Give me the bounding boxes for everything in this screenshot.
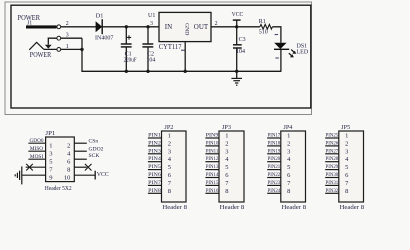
JP4 pin wires [267, 138, 281, 193]
svg-text:3: 3 [345, 148, 348, 155]
JP3 pin numbers [225, 133, 229, 195]
svg-text:CSn: CSn [89, 139, 99, 145]
svg-text:5: 5 [225, 164, 228, 171]
svg-text:PIN25: PIN25 [326, 133, 339, 139]
svg-text:1: 1 [66, 44, 69, 50]
svg-text:PIN13: PIN13 [206, 164, 219, 170]
U1 GND lead wire [184, 42, 186, 72]
junction C3 bottom [235, 70, 238, 73]
LED light arrow 2 [289, 53, 292, 55]
svg-text:GDO2: GDO2 [89, 147, 104, 153]
capacitor C1 [121, 27, 132, 72]
JP5 net labels [326, 133, 339, 194]
svg-text:PIN8: PIN8 [148, 188, 161, 194]
svg-text:GDO0: GDO0 [30, 138, 44, 144]
wire pin3 stub [48, 38, 82, 44]
LED DS1 pin 1 mark [275, 34, 278, 36]
capacitor C2 [142, 27, 153, 72]
svg-text:PIN11: PIN11 [206, 148, 219, 154]
JP5 pin numbers [345, 133, 349, 195]
svg-text:VCC: VCC [97, 172, 109, 178]
svg-text:PIN10: PIN10 [206, 140, 219, 146]
svg-text:LED: LED [297, 50, 309, 56]
wire pin1 to node [44, 48, 82, 50]
svg-text:PIN6: PIN6 [148, 172, 161, 178]
JP1 right wires [74, 143, 95, 175]
JP4 net labels [268, 133, 281, 194]
svg-text:C3: C3 [239, 37, 246, 43]
svg-text:PIN12: PIN12 [206, 156, 219, 162]
svg-text:PIN22: PIN22 [268, 172, 281, 178]
svg-text:2: 2 [168, 140, 171, 147]
svg-text:220uF: 220uF [124, 58, 138, 64]
svg-text:10: 10 [64, 174, 71, 181]
svg-text:GND: GND [184, 23, 190, 35]
connector J1 pin 1 pad [57, 48, 61, 52]
JP3 net labels [206, 133, 219, 194]
ground symbol main [231, 71, 242, 85]
svg-text:Header 8: Header 8 [340, 205, 365, 211]
svg-text:3: 3 [168, 148, 171, 155]
svg-text:POWER: POWER [30, 51, 52, 59]
svg-text:PIN15: PIN15 [206, 180, 219, 186]
svg-text:PIN26: PIN26 [326, 140, 339, 146]
svg-text:104: 104 [146, 58, 155, 64]
LED DS1 pin 2 mark [275, 57, 278, 59]
JP2 pin numbers [168, 133, 172, 195]
junction C2 top [146, 25, 149, 28]
header JP4 box [281, 131, 306, 202]
svg-text:OUT: OUT [194, 23, 209, 31]
header JP3 box [219, 131, 244, 202]
resistor R1 [260, 24, 273, 29]
svg-text:DS1: DS1 [297, 43, 308, 49]
svg-text:CYT117: CYT117 [159, 43, 182, 51]
wire U1 out to R1 [211, 26, 260, 28]
connector J1 switch lever [29, 42, 44, 50]
JP4 pin numbers [287, 133, 291, 195]
svg-text:R1: R1 [259, 19, 266, 25]
svg-text:PIN7: PIN7 [148, 180, 161, 186]
svg-text:IN4007: IN4007 [95, 36, 113, 42]
svg-text:PIN27: PIN27 [326, 148, 339, 154]
svg-text:8: 8 [225, 188, 228, 195]
svg-text:PIN3: PIN3 [148, 148, 161, 154]
JP1 pin numbers left column [49, 142, 53, 181]
svg-text:PIN30: PIN30 [326, 172, 339, 178]
junction U1 gnd [184, 70, 187, 73]
svg-text:1: 1 [49, 142, 52, 149]
JP5 pin wires [325, 138, 339, 193]
svg-text:510: 510 [259, 29, 268, 35]
svg-text:PIN20: PIN20 [268, 156, 281, 162]
junction VCC node [235, 25, 238, 28]
junction C2 bottom [146, 70, 149, 73]
svg-text:PIN9: PIN9 [206, 133, 219, 139]
svg-text:PIN31: PIN31 [326, 180, 339, 186]
svg-text:U1: U1 [148, 13, 155, 19]
power VCC JP1 pin10 [94, 171, 96, 180]
svg-text:PIN1: PIN1 [148, 133, 161, 139]
header JP1 box [46, 137, 75, 182]
junction C1 bottom [125, 70, 128, 73]
JP2 pin wires [148, 138, 162, 193]
svg-text:PIN17: PIN17 [268, 133, 281, 139]
diode D1 [96, 19, 127, 34]
header JP5 box [339, 131, 364, 202]
svg-text:2: 2 [287, 140, 290, 147]
svg-text:104: 104 [236, 49, 245, 55]
svg-text:Header 8: Header 8 [282, 205, 307, 211]
svg-text:5: 5 [168, 164, 171, 171]
wire node down to ground rail [82, 38, 126, 71]
svg-text:PIN23: PIN23 [268, 180, 281, 186]
svg-text:JP5: JP5 [341, 125, 350, 131]
svg-text:2: 2 [66, 21, 69, 27]
svg-text:5: 5 [49, 158, 52, 165]
svg-text:1: 1 [287, 133, 290, 140]
svg-text:2: 2 [225, 140, 228, 147]
svg-text:JP3: JP3 [222, 125, 231, 131]
svg-text:IN: IN [165, 23, 172, 31]
svg-text:VCC: VCC [232, 12, 244, 18]
svg-text:5: 5 [287, 164, 290, 171]
svg-text:PIN24: PIN24 [268, 188, 281, 194]
svg-text:3: 3 [150, 21, 153, 27]
svg-text:8: 8 [345, 188, 348, 195]
svg-text:3: 3 [66, 33, 69, 39]
svg-text:PIN4: PIN4 [148, 156, 161, 162]
JP1 pin numbers right column [64, 142, 71, 181]
svg-text:MOSI: MOSI [30, 154, 43, 160]
JP2 net labels [148, 133, 161, 194]
svg-text:PIN21: PIN21 [268, 164, 281, 170]
junction node J1 [80, 48, 83, 51]
wire pin2 to D1 [59, 26, 96, 28]
svg-text:3: 3 [287, 148, 290, 155]
C1 plus sign [127, 35, 131, 39]
svg-text:Header 8: Header 8 [220, 205, 245, 211]
svg-text:JP4: JP4 [283, 125, 292, 131]
svg-text:1: 1 [345, 133, 348, 140]
svg-text:D1: D1 [96, 12, 104, 19]
junction C1 top [125, 25, 128, 28]
svg-text:2: 2 [67, 142, 70, 149]
svg-text:3: 3 [225, 148, 228, 155]
svg-text:PIN29: PIN29 [326, 164, 339, 170]
LED light arrow 1 [291, 50, 294, 52]
svg-text:JP1: JP1 [45, 131, 55, 137]
svg-text:8: 8 [287, 188, 290, 195]
svg-text:PIN18: PIN18 [268, 140, 281, 146]
svg-text:SCK: SCK [89, 153, 100, 159]
no-connect X pin8 [85, 164, 92, 171]
connector J1 pin 2 pad [57, 25, 61, 29]
capacitor C3 [233, 27, 242, 72]
svg-text:1: 1 [168, 133, 171, 140]
header JP2 box [162, 131, 187, 202]
svg-text:8: 8 [67, 166, 70, 173]
svg-text:MISO: MISO [30, 146, 43, 152]
svg-text:1: 1 [225, 133, 228, 140]
svg-text:PIN5: PIN5 [148, 164, 161, 170]
svg-text:8: 8 [168, 188, 171, 195]
schematic frame [11, 5, 311, 108]
svg-text:2: 2 [345, 140, 348, 147]
JP3 pin wires [205, 138, 219, 193]
sheet outer border [5, 2, 312, 115]
power symbol VCC [233, 20, 241, 27]
svg-text:Header 5X2: Header 5X2 [45, 186, 72, 192]
svg-text:PIN2: PIN2 [148, 140, 161, 146]
connector J1 pin 3 pad [57, 36, 61, 40]
underscore after CYT117 [181, 49, 185, 51]
LED DS1 [274, 43, 289, 72]
JP1 left wires [22, 143, 46, 175]
svg-text:Header 8: Header 8 [162, 205, 187, 211]
svg-text:PIN32: PIN32 [326, 188, 339, 194]
connector J1 body bar [26, 25, 57, 28]
no-connect X pin7 [26, 164, 33, 171]
svg-text:PIN14: PIN14 [206, 172, 219, 178]
svg-text:PIN19: PIN19 [268, 148, 281, 154]
svg-text:5: 5 [345, 164, 348, 171]
wire top rail C1 to U1 [126, 26, 159, 28]
ground rail [126, 70, 281, 72]
wire R1 to LED corner [272, 27, 281, 43]
regulator U1 [159, 12, 211, 41]
svg-text:PIN28: PIN28 [326, 156, 339, 162]
ground symbol JP1 (rotated) [15, 166, 22, 184]
svg-text:9: 9 [49, 174, 52, 181]
connector J1 switch arrow [45, 45, 52, 49]
svg-text:PIN16: PIN16 [206, 188, 219, 194]
svg-text:3: 3 [49, 150, 52, 157]
svg-text:JP2: JP2 [164, 125, 173, 131]
